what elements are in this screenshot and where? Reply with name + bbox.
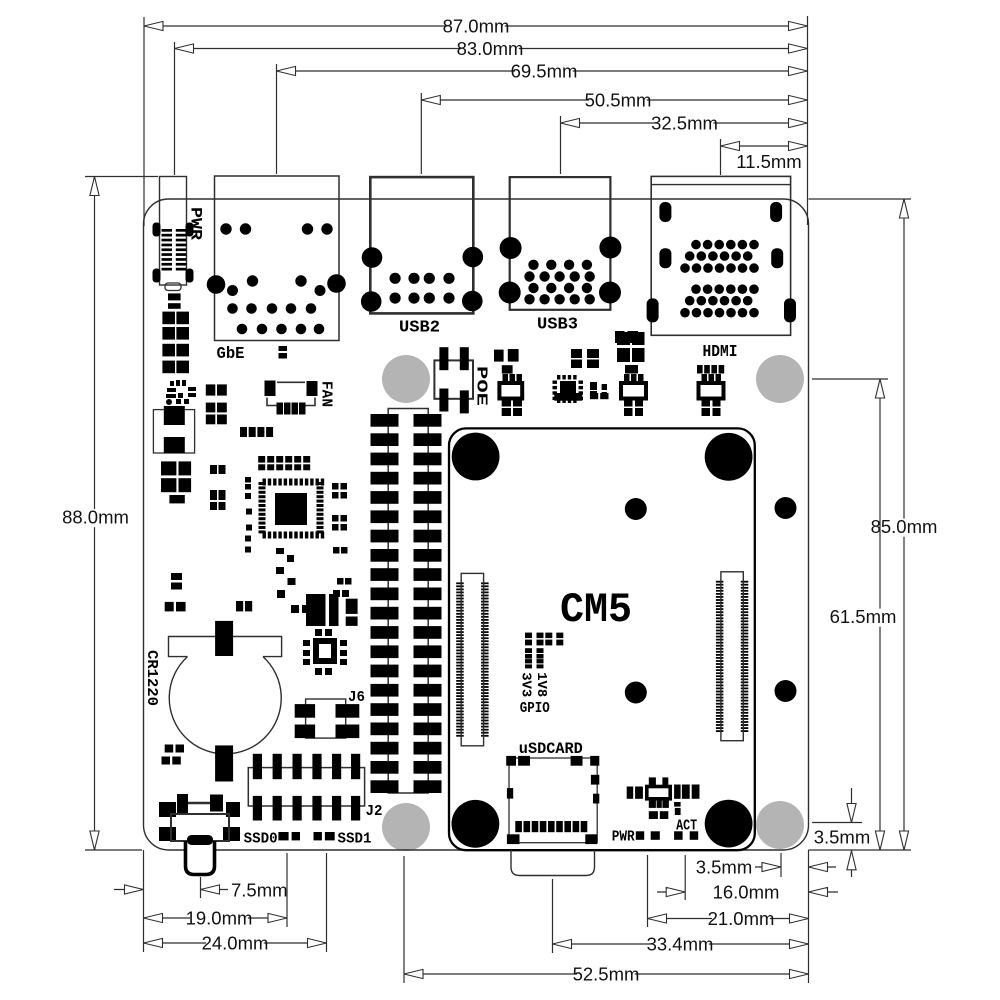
svg-text:FAN: FAN xyxy=(318,381,335,407)
svg-text:52.5mm: 52.5mm xyxy=(573,964,640,985)
svg-text:85.0mm: 85.0mm xyxy=(871,516,938,537)
svg-text:83.0mm: 83.0mm xyxy=(457,38,524,59)
svg-text:SSD0: SSD0 xyxy=(244,831,278,848)
svg-text:SSD1: SSD1 xyxy=(338,831,372,848)
svg-text:1V8: 1V8 xyxy=(533,672,549,697)
svg-text:21.0mm: 21.0mm xyxy=(708,908,775,929)
svg-text:7.5mm: 7.5mm xyxy=(231,880,288,901)
svg-text:J6: J6 xyxy=(348,690,365,706)
svg-text:uSDCARD: uSDCARD xyxy=(519,740,583,758)
svg-text:61.5mm: 61.5mm xyxy=(830,606,897,627)
svg-text:69.5mm: 69.5mm xyxy=(511,61,578,82)
svg-text:16.0mm: 16.0mm xyxy=(713,882,780,903)
svg-text:24.0mm: 24.0mm xyxy=(202,933,269,954)
svg-text:USB2: USB2 xyxy=(399,318,440,337)
svg-text:J2: J2 xyxy=(366,804,383,820)
svg-text:PWR: PWR xyxy=(187,207,205,241)
svg-text:87.0mm: 87.0mm xyxy=(443,16,510,37)
svg-text:PWR: PWR xyxy=(612,829,635,846)
svg-text:GbE: GbE xyxy=(217,345,245,364)
svg-text:19.0mm: 19.0mm xyxy=(186,908,253,929)
svg-text:3V3: 3V3 xyxy=(518,672,534,697)
svg-text:CM5: CM5 xyxy=(560,586,632,634)
svg-text:USB3: USB3 xyxy=(537,315,578,334)
svg-text:GPIO: GPIO xyxy=(520,700,550,717)
svg-text:3.5mm: 3.5mm xyxy=(814,827,871,848)
svg-text:33.4mm: 33.4mm xyxy=(647,934,714,955)
svg-text:CR1220: CR1220 xyxy=(143,650,160,706)
svg-text:11.5mm: 11.5mm xyxy=(736,151,801,172)
svg-text:3.5mm: 3.5mm xyxy=(696,857,753,878)
svg-text:HDMI: HDMI xyxy=(703,342,738,361)
svg-text:88.0mm: 88.0mm xyxy=(62,507,129,528)
svg-text:32.5mm: 32.5mm xyxy=(651,113,718,134)
svg-text:POE: POE xyxy=(473,366,490,406)
svg-text:50.5mm: 50.5mm xyxy=(585,90,652,111)
